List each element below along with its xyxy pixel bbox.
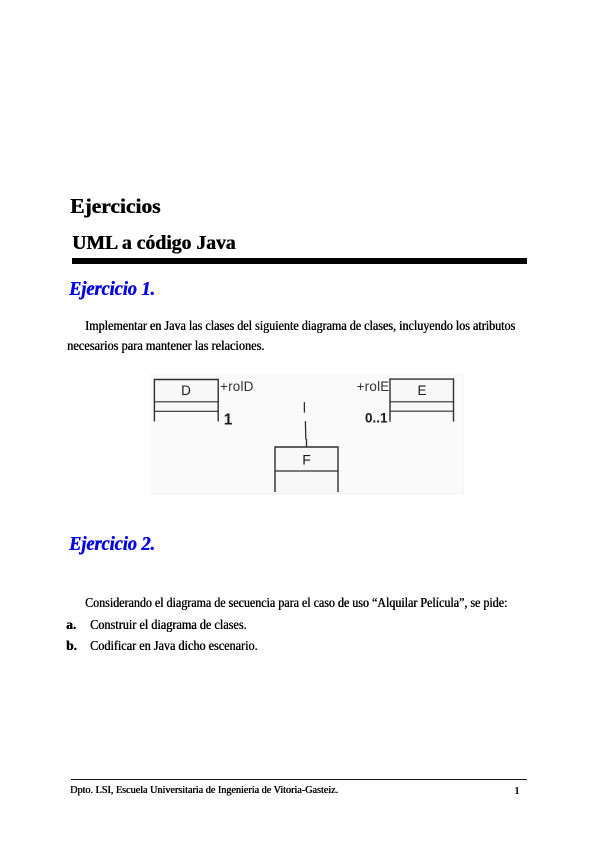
title line 2: UML a codigo Java xyxy=(72,234,236,254)
paragraph line 1 xyxy=(85,319,515,332)
footer department text xyxy=(70,786,338,797)
svg-text:+rolD: +rolD xyxy=(220,379,254,394)
svg-text:1: 1 xyxy=(224,412,233,429)
heading Ejercicio 2 xyxy=(69,534,155,554)
UML diagram xyxy=(140,370,470,500)
class box F xyxy=(275,447,338,492)
thick rule under title xyxy=(72,258,528,264)
footer rule xyxy=(71,779,527,780)
paragraph line 2 xyxy=(67,339,264,352)
heading Ejercicio 1 xyxy=(69,279,155,299)
paragraph Considerando xyxy=(85,596,507,609)
footer page number xyxy=(514,786,520,797)
svg-text:F: F xyxy=(302,452,311,468)
dashed connector dash 1 xyxy=(303,402,305,413)
svg-text:+rolE: +rolE xyxy=(357,379,390,394)
svg-text:D: D xyxy=(181,383,191,398)
diagram bitmap background wash xyxy=(150,374,464,494)
class box D xyxy=(154,380,218,422)
dashed connector dash 2 xyxy=(305,421,306,447)
list item b text xyxy=(90,639,257,652)
title line 1: Ejercicios xyxy=(70,196,160,218)
svg-text:E: E xyxy=(417,383,426,398)
list marker b xyxy=(66,639,77,652)
svg-text:0..1: 0..1 xyxy=(365,411,388,426)
class box E xyxy=(390,379,454,422)
list item a text xyxy=(90,618,247,631)
list marker a xyxy=(66,618,76,631)
